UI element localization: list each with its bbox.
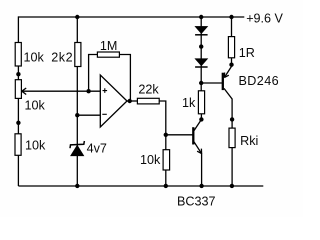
- diode D2: [195, 59, 208, 66]
- transistor Q2 BD246 base bar: [222, 73, 224, 90]
- svg-text:BC337: BC337: [177, 195, 216, 209]
- wire: feedback right segment: [119, 55, 130, 102]
- resistor 1M (feedback): [97, 52, 119, 57]
- zener diode 4v7: [71, 145, 84, 156]
- svg-text:22k: 22k: [138, 83, 159, 97]
- wire: BC337 base wire: [166, 134, 193, 136]
- node dot: 1R / emitter: [229, 62, 233, 66]
- node dot: 10k / bottom rail: [164, 184, 168, 188]
- node dot: Rki / bottom rail: [230, 184, 234, 188]
- resistor 1R: [228, 37, 234, 58]
- wire: BD246 emitter diagonal: [224, 66, 231, 77]
- svg-text:10k: 10k: [25, 138, 46, 152]
- wire: left divider column: [17, 16, 19, 186]
- resistor 10k (base divider): [163, 150, 170, 170]
- node dot: output / feedback: [128, 99, 132, 103]
- wire: diode column from rail to 1k: [200, 16, 202, 91]
- wire: 1k bottom to BC337 collector: [194, 114, 201, 131]
- wire: BD246 collector to Rki: [224, 88, 232, 128]
- node dot: 1k / collector: [199, 117, 203, 121]
- resistor R 10k (top left): [15, 43, 21, 67]
- wire: 1R column from rail: [231, 16, 233, 36]
- resistor 2k2: [75, 43, 81, 67]
- svg-text:4v7: 4v7: [87, 142, 107, 156]
- svg-text:1k: 1k: [182, 96, 196, 110]
- wire: ground/return bottom rail: [18, 185, 263, 187]
- node dot: rail/1R: [229, 15, 233, 19]
- node dot: feedback / + input: [86, 89, 90, 93]
- node dot: zener / bottom rail: [75, 184, 79, 188]
- wire: feedback left segment: [89, 55, 98, 92]
- node dot: divider bottom junction: [16, 121, 20, 125]
- svg-text:10k: 10k: [24, 50, 45, 64]
- diode D1 (top): [195, 26, 208, 33]
- wire: 1R bottom to emitter dot: [231, 58, 233, 67]
- svg-text:10k: 10k: [25, 98, 46, 112]
- transistor Q1 BC337 base bar: [192, 127, 194, 144]
- wire: pot wiper to op-amp + input: [22, 90, 101, 92]
- svg-text:1M: 1M: [100, 39, 118, 53]
- svg-text:Rki: Rki: [240, 134, 258, 148]
- node dot: divider top junction: [16, 72, 20, 76]
- node dot: zener / - input: [75, 113, 79, 117]
- node dot: emitter / bottom rail: [199, 184, 203, 188]
- wire: BC337 emitter down to rail: [194, 142, 202, 186]
- wire: 2k2 / zener column: [76, 16, 78, 186]
- wire: op-amp output: [127, 100, 138, 102]
- wire: +9.6V top rail: [18, 16, 244, 18]
- wire: 22k output node down to rail: [159, 101, 166, 186]
- wire: BD246 base wire: [201, 82, 222, 84]
- resistor 22k: [137, 98, 159, 104]
- node dot: rail/2k2: [75, 15, 79, 19]
- svg-text:10k: 10k: [140, 153, 161, 167]
- op-amp U1: [100, 75, 127, 127]
- potentiometer wiper arrow: [22, 88, 26, 95]
- resistor 1k: [198, 91, 204, 114]
- op-amp - input marker: [102, 113, 107, 115]
- node dot: rail/diodes: [199, 15, 203, 19]
- transistor Q1 BC337 emitter arrow: [197, 149, 202, 154]
- svg-text:2k2: 2k2: [51, 51, 73, 65]
- resistor 10k (bottom left): [15, 134, 21, 156]
- svg-text:1R: 1R: [239, 46, 255, 60]
- wire: Rki bottom to rail: [231, 147, 233, 186]
- transistor Q2 BD246 emitter arrow: [224, 73, 229, 78]
- node dot: diode/base/1k node: [199, 81, 203, 85]
- node dot: between diodes: [199, 44, 203, 48]
- svg-text:BD246: BD246: [239, 74, 280, 88]
- potentiometer 10k body: [15, 80, 21, 99]
- svg-text:+9.6 V: +9.6 V: [246, 12, 283, 26]
- resistor Rki (load): [229, 128, 235, 148]
- op-amp + input marker: [103, 88, 108, 93]
- wire: zener node to op-amp - input: [77, 114, 100, 116]
- node dot: collector / Rki: [230, 117, 234, 121]
- node dot: 22k-10k / base node: [164, 133, 168, 137]
